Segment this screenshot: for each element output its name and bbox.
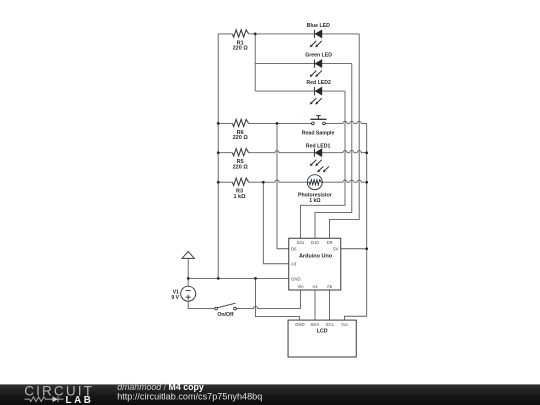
- svg-text:A4: A4: [312, 284, 318, 289]
- svg-text:Vin: Vin: [297, 284, 304, 289]
- wire: battery to switch: [188, 301, 215, 308]
- wire: Red LED2 to right corner: [322, 90, 345, 92]
- junction: R1 output node: [254, 33, 257, 36]
- wire: R5 to Red LED1 with crossover: [249, 151, 315, 153]
- svg-text:Red LED2: Red LED2: [306, 80, 331, 86]
- LED Red LED2: [310, 87, 322, 105]
- wire: R3 to photoresistor with crossover: [249, 180, 308, 182]
- svg-text:220 Ω: 220 Ω: [233, 46, 249, 52]
- svg-text:Arduino Uno: Arduino Uno: [299, 254, 333, 260]
- svg-text:D6: D6: [291, 247, 297, 252]
- wire: switch to Arduino Vin with crossover: [236, 307, 300, 309]
- junction: GND rail LCD branch: [254, 277, 257, 280]
- footer bar: [0, 384, 540, 405]
- resistor R5: [232, 149, 248, 156]
- resistor R1: [232, 30, 248, 37]
- svg-text:On/Off: On/Off: [217, 312, 233, 318]
- wire: divider tap to Arduino A3: [263, 182, 288, 264]
- wire: Green LED drop to Arduino D10: [315, 64, 352, 239]
- LED Green LED: [310, 60, 322, 78]
- junction: battery top: [187, 277, 190, 280]
- voltage source V1 9V: [181, 286, 196, 301]
- push button Read Sample: [310, 116, 326, 125]
- wire: R3 row left lead: [218, 181, 232, 183]
- wire: Blue LED to right corner: [322, 33, 359, 35]
- svg-text:D11: D11: [297, 240, 305, 245]
- svg-text:LCD: LCD: [317, 328, 328, 334]
- wire: left GND vertical rail: [217, 34, 219, 279]
- svg-text:LAB: LAB: [66, 395, 94, 405]
- svg-text:Red LED1: Red LED1: [306, 144, 331, 150]
- wire: LED branch vertical: [254, 34, 256, 91]
- wire: R1 to Blue LED: [249, 33, 315, 35]
- svg-text:1 kΩ: 1 kΩ: [233, 194, 246, 200]
- junction: A3 tap: [262, 181, 265, 184]
- wire: 5V rail down to LCD Vcc: [345, 123, 367, 320]
- svg-text:Vcc: Vcc: [341, 322, 349, 327]
- wire: R5 row left lead: [218, 152, 232, 154]
- junction: GND rail at R3: [217, 181, 220, 184]
- wire: branch to Green LED: [255, 63, 314, 65]
- photoresistor: [307, 166, 329, 189]
- resistor R3: [232, 178, 248, 185]
- svg-text:Green LED: Green LED: [305, 53, 332, 59]
- CircuitLab logo schematic squiggle: [25, 397, 53, 402]
- svg-text:GND: GND: [295, 322, 305, 327]
- junction: GND rail left vertical: [217, 277, 220, 280]
- svg-text:SCL: SCL: [326, 322, 335, 327]
- wire: Red LED2 drop to Arduino D11: [301, 91, 346, 238]
- junction: 5V rail at Arduino 5V: [365, 247, 368, 250]
- svg-text:Read Sample: Read Sample: [302, 130, 335, 136]
- svg-text:D10: D10: [311, 240, 319, 245]
- svg-text:D9: D9: [327, 240, 333, 245]
- wire: Vin drop: [300, 290, 302, 309]
- wire: antenna stem: [187, 258, 189, 278]
- wire: Blue LED drop to Arduino D9: [330, 34, 360, 238]
- wire: Arduino 5V to rail: [341, 248, 367, 250]
- wire: Arduino A4 to LCD SDA: [314, 290, 316, 320]
- svg-text:Blue LED: Blue LED: [307, 23, 330, 29]
- wire: R6 to push button: [249, 122, 312, 124]
- power flag triangle: [182, 252, 194, 259]
- svg-text:9 V: 9 V: [171, 295, 179, 301]
- svg-text:GND: GND: [291, 276, 301, 281]
- svg-text:A3: A3: [291, 262, 297, 267]
- junction: D6 tap: [276, 122, 279, 125]
- wire: battery top lead: [187, 278, 189, 286]
- svg-text:1 kΩ: 1 kΩ: [309, 198, 320, 204]
- svg-text:http://circuitlab.com/cs7p75ny: http://circuitlab.com/cs7p75nyh48bq: [117, 391, 262, 401]
- wire: button tap to Arduino D6: [277, 123, 289, 248]
- wire: Green LED to right corner: [322, 63, 352, 65]
- wire: R6 row left lead: [218, 122, 232, 124]
- svg-text:A5: A5: [327, 284, 333, 289]
- wire: photoresistor to 5V rail with crossovers: [322, 180, 366, 182]
- module LCD: [288, 320, 356, 357]
- wire: Red LED1 to 5V rail with crossovers: [322, 151, 367, 153]
- wire: R1 row left lead: [218, 33, 232, 35]
- switch On/Off: [215, 303, 237, 310]
- LED Blue LED: [310, 30, 322, 48]
- wire: ground rail to Arduino GND: [188, 277, 289, 279]
- wire: branch to Red LED2: [255, 90, 314, 92]
- resistor R6: [232, 119, 248, 126]
- svg-text:5V: 5V: [333, 247, 338, 252]
- svg-text:220 Ω: 220 Ω: [233, 135, 249, 141]
- svg-text:SDA: SDA: [310, 322, 319, 327]
- LED Red LED1: [310, 149, 322, 167]
- junction: 5V rail at Red LED1: [365, 151, 368, 154]
- IC Arduino Uno: [289, 238, 341, 290]
- wire: ground rail to LCD GND: [256, 278, 300, 320]
- junction: GND rail at R6: [217, 122, 220, 125]
- svg-text:220 Ω: 220 Ω: [233, 165, 249, 171]
- junction: 5V rail at photoresistor: [365, 181, 368, 184]
- wire: Arduino A5 to LCD SCL: [329, 290, 331, 320]
- wire: push button to 5V rail with crossovers: [325, 121, 366, 123]
- junction: GND rail at R5: [217, 151, 220, 154]
